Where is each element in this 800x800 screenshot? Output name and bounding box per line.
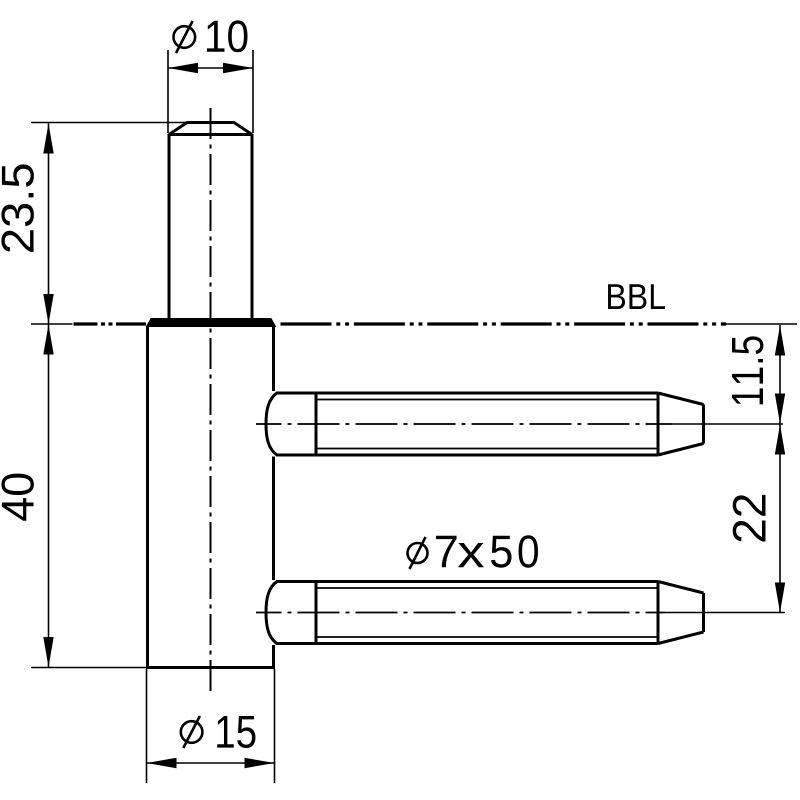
upper threaded pin [266,393,704,455]
lower threaded pin [266,582,704,644]
top pin (doorframe part) [169,123,252,319]
dimension 11.5 / 22 line [779,325,781,613]
BBL label [608,284,665,309]
BBL left extension segment [31,323,73,325]
collar / flange at body top [147,319,276,327]
dimension Ø15 line with arrows [147,762,275,764]
dimension 40 line with arrows [48,324,50,667]
BBL right extension segment [726,323,797,325]
upper pin thread lines [317,400,658,449]
label Ø15 [181,716,203,748]
vertical centerline of hinge body [210,108,212,693]
dimension 23.5 line with arrows [48,124,50,325]
dimension Ø15 extension lines [147,669,275,783]
dimension 40 extension line (bottom) [31,667,146,669]
label 22 [733,495,766,542]
label 23.5 [1,164,34,251]
dimension Ø10 line with arrows [168,67,253,69]
BBL phantom line [74,322,98,325]
label Ø10 [174,21,196,53]
dimension 23.5 extension line (top) [31,122,187,124]
label 11.5 [732,336,763,404]
dimension Ø10 extension lines [168,50,253,133]
upper pin centerline [256,423,672,425]
label 40 [1,474,34,521]
label Ø7x50 [408,537,428,569]
main body outline [146,326,275,668]
lower pin thread lines [317,588,658,637]
lower pin centerline [256,612,665,614]
